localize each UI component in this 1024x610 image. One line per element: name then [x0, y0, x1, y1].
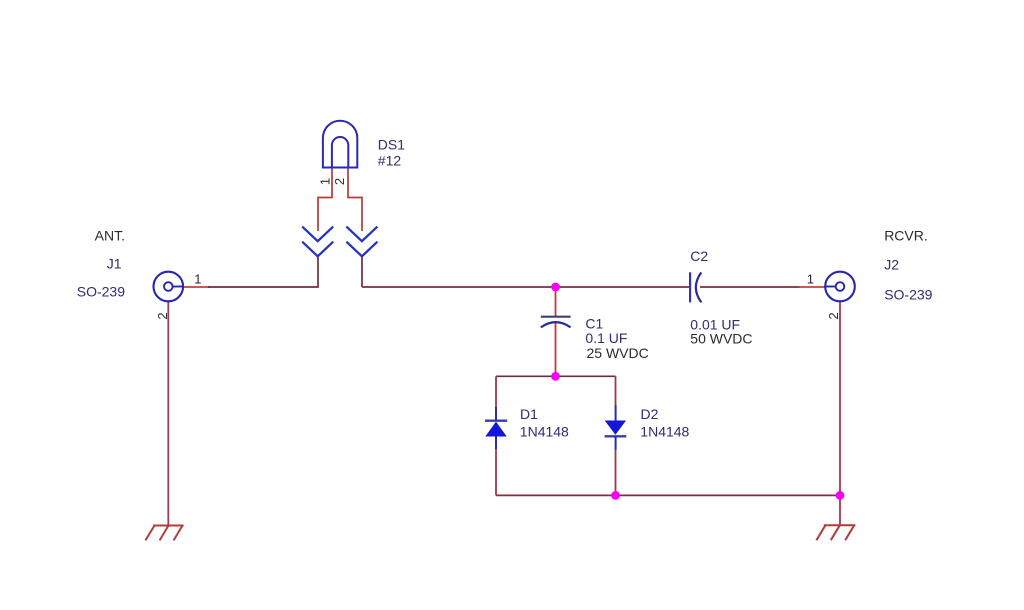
svg-text:1N4148: 1N4148: [640, 424, 689, 440]
svg-text:J2: J2: [884, 257, 899, 273]
svg-text:D1: D1: [520, 406, 538, 422]
svg-text:RCVR.: RCVR.: [884, 228, 928, 244]
svg-text:D2: D2: [641, 406, 659, 422]
svg-text:DS1: DS1: [378, 136, 405, 152]
svg-text:2: 2: [155, 312, 170, 319]
svg-text:0.1 UF: 0.1 UF: [585, 330, 627, 346]
svg-text:SO-239: SO-239: [884, 287, 932, 303]
svg-text:1: 1: [807, 272, 814, 287]
svg-text:SO-239: SO-239: [77, 284, 125, 300]
svg-text:2: 2: [332, 178, 347, 185]
svg-text:1N4148: 1N4148: [520, 424, 569, 440]
svg-text:C2: C2: [690, 248, 708, 264]
svg-text:50 WVDC: 50 WVDC: [690, 331, 752, 347]
svg-text:1: 1: [318, 178, 333, 185]
svg-text:ANT.: ANT.: [95, 227, 125, 243]
svg-text:2: 2: [826, 312, 841, 319]
svg-text:25 WVDC: 25 WVDC: [587, 345, 649, 361]
svg-text:J1: J1: [107, 256, 122, 272]
svg-text:1: 1: [194, 272, 201, 287]
svg-text:#12: #12: [378, 153, 402, 169]
